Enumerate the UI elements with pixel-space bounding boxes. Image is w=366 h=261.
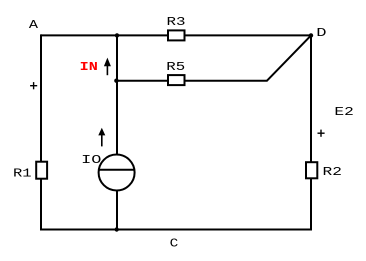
node junction R5 — [114, 79, 118, 83]
wire right D-C — [310, 35, 312, 230]
svg-text:R5: R5 — [166, 60, 185, 74]
arrow I0 — [98, 128, 105, 147]
wire diagonal to D — [267, 35, 312, 81]
svg-text:A: A — [29, 18, 39, 32]
svg-text:E2: E2 — [334, 105, 353, 119]
svg-text:C: C — [170, 236, 179, 250]
svg-text:R3: R3 — [167, 15, 186, 29]
wire middle vertical — [116, 35, 118, 229]
wire left A-C — [40, 34, 42, 230]
svg-text:D: D — [316, 26, 326, 40]
arrow IN — [104, 58, 111, 76]
node junction bottom — [115, 227, 119, 231]
svg-text:IO: IO — [81, 153, 101, 167]
resistor R3 — [168, 30, 185, 40]
plus sign left — [30, 82, 37, 89]
svg-text:R2: R2 — [323, 165, 342, 179]
wire top A-D — [41, 34, 311, 36]
plus sign right — [318, 130, 325, 137]
node junction top — [115, 33, 119, 37]
current source I0 — [99, 155, 135, 191]
resistor R2 — [306, 162, 317, 178]
resistor R5 — [168, 75, 185, 85]
svg-text:IN: IN — [80, 60, 98, 74]
resistor R1 — [36, 162, 47, 179]
wire R5 horizontal — [117, 80, 267, 82]
svg-text:R1: R1 — [13, 166, 32, 180]
wire bottom C — [40, 229, 312, 231]
node D junction — [309, 33, 313, 37]
